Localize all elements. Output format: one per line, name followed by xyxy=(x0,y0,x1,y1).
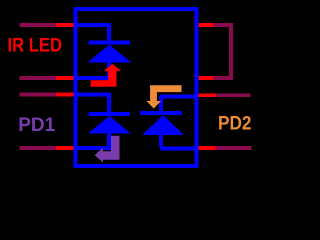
pin 2 wire left (red stub) xyxy=(56,76,74,80)
photodiode PD2 cathode bar xyxy=(140,111,182,115)
svg-text:PD1: PD1 xyxy=(18,114,55,136)
pin 6 wire right (red stub) xyxy=(198,94,216,98)
svg-text:PD2: PD2 xyxy=(218,112,252,134)
wire: pin1 to LED cathode (horizontal) xyxy=(77,23,111,27)
pin 3 wire left (red stub) xyxy=(56,93,74,97)
wire: LED anode down (vertical) xyxy=(107,60,111,77)
wire: down to LED bar (vertical) xyxy=(107,23,111,40)
wire: pin3 to PD1 (horizontal) xyxy=(77,93,111,97)
IR LED D1 cathode bar xyxy=(89,41,131,45)
IR LED D1 triangle xyxy=(88,45,131,63)
wire: PD2 cathode stub up (vertical) xyxy=(159,96,163,112)
pin 7 wire right (red stub) xyxy=(198,76,214,80)
pin 5 wire right (maroon) xyxy=(216,146,252,150)
wire: PD1 anode down (vertical) xyxy=(107,132,111,149)
svg-text:IR LED: IR LED xyxy=(8,35,63,57)
pin 4 wire left (maroon) xyxy=(20,146,56,150)
pin 8 wire right (red stub) xyxy=(198,23,214,27)
wire: PD1 anode to pin4 (horizontal) xyxy=(77,146,111,150)
pin 4 wire left (red stub) xyxy=(56,146,74,150)
purple arrow (light into PD1) xyxy=(95,136,120,163)
orange arrow (light into PD2) xyxy=(146,85,181,108)
wire: PD2 anode down (vertical) xyxy=(159,133,163,147)
wire: LED anode to pin2 (horizontal) xyxy=(77,76,111,80)
pin 3 wire left (maroon) xyxy=(20,93,56,97)
pin 1 wire left (red stub) xyxy=(56,23,74,27)
pin 1 wire left (maroon) xyxy=(20,23,56,27)
package outline U1 xyxy=(76,9,197,166)
photodiode PD2 triangle xyxy=(142,115,184,135)
pin 5 wire right (red stub) xyxy=(198,146,216,150)
wire: down to PD1 bar (vertical) xyxy=(107,93,111,112)
external jumper loop pins 8-7 (maroon) xyxy=(214,23,233,80)
wire: PD2 to pin6 (horizontal) xyxy=(160,94,195,98)
red arrow (LED emission) xyxy=(91,64,122,87)
pin 6 wire right (maroon) xyxy=(216,94,251,98)
photodiode PD1 triangle xyxy=(88,116,131,134)
photodiode PD1 cathode bar xyxy=(89,112,131,116)
pin 2 wire left (maroon) xyxy=(20,76,56,80)
wire: PD2 anode to pin5 (horizontal) xyxy=(160,146,195,150)
